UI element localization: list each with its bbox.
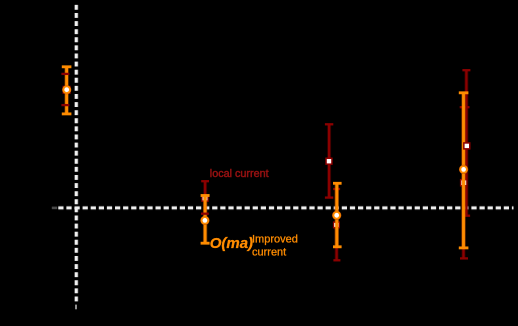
svg-text:Improved: Improved xyxy=(252,234,298,246)
svg-text:current: current xyxy=(252,247,286,259)
svg-text:local current: local current xyxy=(210,168,269,180)
svg-text:O(ma): O(ma) xyxy=(210,235,253,252)
